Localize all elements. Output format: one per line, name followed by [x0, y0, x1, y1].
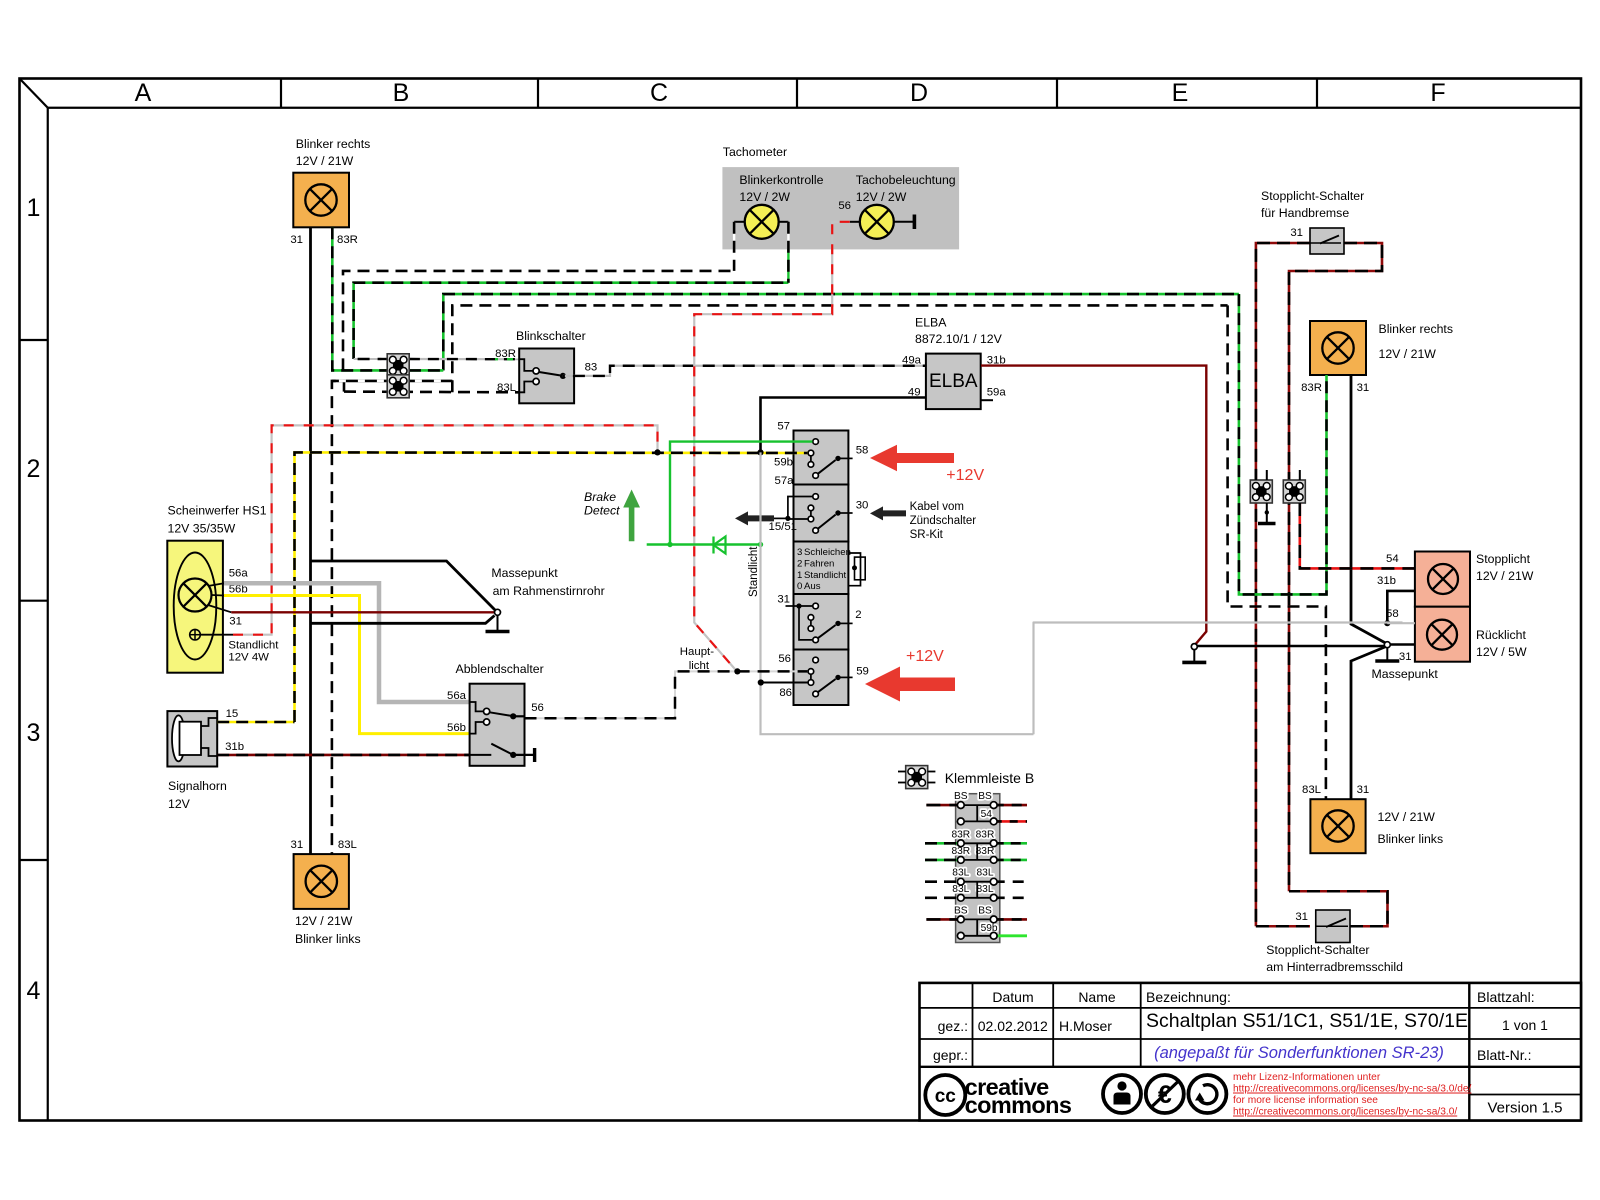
wire 83R green loop from bus L3 to right lamp [1239, 294, 1327, 594]
Klemmleiste internal pair links [976, 805, 978, 821]
svg-text:Tachobeleuchtung: Tachobeleuchtung [856, 173, 956, 187]
Abblendschalter internal contacts [470, 702, 484, 711]
wire 31 Ruecklicht to right Massepunkt [1390, 643, 1415, 646]
wire Handbremse switch left leg (to left connector) [1256, 243, 1310, 926]
svg-text:ELBA: ELBA [929, 371, 978, 392]
wire ELBA 49 to light switch via yellow bus junction [761, 398, 926, 453]
lamp Blinkerkontrolle right stub + green wire down to bus L2 [779, 221, 789, 223]
svg-text:83R: 83R [495, 348, 516, 360]
svg-text:BS: BS [978, 905, 992, 916]
svg-text:83L: 83L [977, 868, 994, 879]
junction dot Hauptlicht [734, 668, 740, 674]
row dividers [20, 339, 48, 341]
switch Blinkschalter body [519, 349, 574, 404]
svg-text:Schaltplan S51/1C1, S51/1E, S7: Schaltplan S51/1C1, S51/1E, S70/1E [1146, 1010, 1468, 1032]
svg-text:Signalhorn: Signalhorn [168, 779, 227, 793]
svg-text:1: 1 [797, 570, 802, 581]
bus L3 green/black y=294.1 [443, 294, 1239, 370]
Klemmleiste B terminals and stub wires [961, 804, 994, 806]
svg-text:Zündschalter: Zündschalter [910, 515, 977, 527]
svg-text:Fahren: Fahren [804, 558, 834, 569]
svg-text:3: 3 [27, 719, 41, 747]
frame bevel diagonal [20, 79, 48, 108]
svg-text:Kabel vom: Kabel vom [910, 501, 964, 513]
switch section4 pins (31/2) [810, 617, 812, 628]
svg-text:12V / 21W: 12V / 21W [1378, 810, 1436, 824]
svg-text:(angepaßt für Sonderfunktionen: (angepaßt für Sonderfunktionen SR-23) [1154, 1044, 1444, 1062]
svg-text:12V / 21W: 12V / 21W [295, 914, 353, 928]
svg-text:31: 31 [1357, 784, 1370, 796]
svg-text:31b: 31b [1377, 575, 1396, 587]
svg-text:3: 3 [797, 547, 802, 558]
connector (4-pin) right of pair [1283, 480, 1305, 503]
svg-text:31b: 31b [225, 741, 244, 753]
svg-text:cc: cc [935, 1086, 957, 1107]
cc icon person (by) [1103, 1075, 1141, 1113]
lamp Blinker links (bottom right) body [1310, 799, 1365, 853]
wire Hinterrad switch left leg [1256, 925, 1310, 928]
svg-text:83R: 83R [337, 234, 358, 246]
svg-text:Scheinwerfer HS1: Scheinwerfer HS1 [168, 504, 267, 518]
svg-text:83L: 83L [952, 868, 969, 879]
lamp Blinkerkontrolle [745, 205, 779, 239]
svg-text:Massepunkt: Massepunkt [1372, 667, 1439, 681]
svg-text:Stopplicht: Stopplicht [1476, 552, 1531, 566]
bus L1 black dashed y=270.9 [343, 271, 734, 371]
left ground node near E (dark red from ELBA 31b) [1191, 644, 1197, 650]
lamp Blinker links (bottom left) body [294, 854, 349, 909]
green junction dot [667, 542, 672, 547]
svg-text:15/51: 15/51 [768, 521, 797, 533]
svg-text:Massepunkt: Massepunkt [491, 566, 558, 580]
wire row1 gray from connector1 to Blinkschalter 83R [409, 358, 519, 360]
wire 83R green from top-left lamp down then right to connector row2 [332, 227, 387, 370]
wire connector2 row4 to Blinkschalter 83L [344, 390, 519, 393]
bus L2 green/black y=282.7 [354, 283, 789, 359]
wire 56b yellow to Abblendschalter [224, 596, 470, 734]
svg-text:Blinker links: Blinker links [1378, 832, 1444, 846]
ELBA box [926, 354, 981, 410]
Signalhorn pin notches [201, 718, 217, 726]
lamp Blinker rechts (right) body [1310, 321, 1366, 375]
section4 bracket [799, 606, 813, 640]
svg-text:für Handbremse: für Handbremse [1261, 206, 1349, 220]
creative commons cc logo [925, 1075, 965, 1115]
wire green diode branch [647, 543, 761, 545]
svg-text:F: F [1430, 79, 1445, 107]
connector (4-pin) left of pair, with ground [1250, 480, 1272, 503]
Blinkschalter internal contacts [519, 359, 533, 371]
svg-text:BS: BS [954, 791, 968, 802]
svg-text:Detect: Detect [584, 504, 620, 518]
wire green 57 from switch to diode junction [670, 442, 812, 545]
svg-text:Blinker rechts: Blinker rechts [296, 137, 371, 151]
svg-text:83: 83 [585, 361, 598, 373]
svg-text:Version 1.5: Version 1.5 [1487, 1100, 1562, 1117]
diode symbol (green) [712, 537, 714, 554]
svg-text:Haupt-: Haupt- [680, 646, 714, 658]
right Massepunkt node and ground [1384, 642, 1390, 648]
Tachometer housing [722, 167, 959, 249]
svg-text:Stopplicht-Schalter: Stopplicht-Schalter [1266, 943, 1369, 957]
wire 58 gray from switch block to Ruecklicht [1034, 623, 1403, 735]
svg-text:12V / 2W: 12V / 2W [856, 190, 907, 204]
svg-text:+12V: +12V [906, 648, 944, 665]
svg-text:83L: 83L [497, 382, 516, 394]
wire ELBA 31b dark red to right Massepunkt [981, 366, 1206, 646]
lamp Stopplicht symbol [1428, 564, 1458, 594]
wire 31 dark red Scheinwerfer to Massepunkt [231, 611, 494, 613]
svg-text:Standlicht: Standlicht [228, 640, 279, 652]
ELBA 59a stub [981, 399, 993, 401]
frame header inner line [48, 107, 1581, 109]
Klemmleiste B connector icon [906, 766, 928, 789]
svg-text:SR-Kit: SR-Kit [910, 529, 944, 541]
wire 31 from top-left lamp down to Massepunkt branches and bottom lamp [309, 227, 312, 854]
svg-text:12V / 5W: 12V / 5W [1476, 645, 1527, 659]
svg-text:12V / 21W: 12V / 21W [1476, 569, 1534, 583]
svg-text:31: 31 [1295, 911, 1308, 923]
Stopplicht-Schalter Hinterrad body [1316, 910, 1350, 943]
Scheinwerfer housing [167, 541, 223, 673]
svg-text:59: 59 [856, 666, 869, 678]
svg-text:Klemmleiste B: Klemmleiste B [945, 770, 1034, 786]
light switch block housing sections [794, 431, 849, 485]
svg-text:Abblendschalter: Abblendschalter [456, 662, 544, 676]
svg-text:commons: commons [965, 1092, 1072, 1118]
svg-text:Tachometer: Tachometer [723, 145, 787, 159]
svg-text:Datum: Datum [992, 989, 1033, 1005]
svg-text:30: 30 [856, 499, 869, 511]
wire row2 green from connector1 right to bus L3 vertical [409, 369, 443, 372]
switch section5 pins (56/86/59) [810, 671, 812, 682]
svg-text:59a: 59a [987, 386, 1007, 398]
title block outer box [920, 983, 1582, 1121]
wire 83L from connector rows down to bottom-left lamp [332, 381, 344, 854]
svg-text:Standlicht: Standlicht [804, 570, 846, 581]
switch section2 pins (57a/15-51/30) [810, 508, 812, 519]
svg-text:12V 35/35W: 12V 35/35W [168, 522, 236, 536]
black arrow Kabel vom Zuendschalter [870, 506, 906, 520]
frame left band inner line [47, 108, 49, 1121]
svg-text:12V 4W: 12V 4W [228, 652, 269, 664]
svg-text:83R: 83R [1301, 382, 1322, 394]
switch section3 selector mechanism [848, 553, 860, 586]
junction dots on yellow bus [654, 449, 660, 455]
svg-text:http://creativecommons.org/lic: http://creativecommons.org/licenses/by-n… [1233, 1107, 1457, 1118]
svg-text:31: 31 [229, 616, 242, 628]
svg-text:86: 86 [779, 687, 792, 699]
svg-text:D: D [910, 79, 928, 107]
svg-text:4: 4 [27, 977, 41, 1005]
wire 31 from right lamp down to right Massepunkt [1351, 375, 1387, 644]
svg-text:gez.:: gez.: [938, 1018, 968, 1034]
svg-text:56: 56 [778, 653, 791, 665]
svg-text:Blattzahl:: Blattzahl: [1477, 989, 1535, 1005]
svg-text:+12V: +12V [946, 467, 984, 484]
Massepunkt node and ground [495, 609, 501, 615]
svg-text:83R: 83R [976, 846, 995, 857]
svg-text:mehr Lizenz-Informationen unte: mehr Lizenz-Informationen unter [1233, 1072, 1381, 1083]
svg-text:31: 31 [1399, 651, 1412, 663]
wire between left ground node and right Massepunkt [1197, 645, 1385, 648]
svg-text:C: C [650, 79, 668, 107]
svg-text:Aus: Aus [804, 581, 821, 592]
svg-text:54: 54 [1386, 553, 1399, 565]
svg-text:BS: BS [978, 791, 992, 802]
Massepunkt branch wires from 31 vertical [311, 561, 496, 610]
Brake Detect green arrow [623, 490, 640, 542]
wire Handbremse switch right leg [1289, 243, 1382, 891]
svg-text:1: 1 [27, 194, 41, 222]
svg-text:Blatt-Nr.:: Blatt-Nr.: [1477, 1047, 1531, 1063]
bus L4 black dashed y=305.4 [452, 305, 1227, 392]
svg-text:83L: 83L [1302, 784, 1321, 796]
wire 54 red/black from right connector to Stopplicht lamp [1300, 503, 1415, 568]
wire 83 output to ELBA 49a [563, 366, 926, 376]
wire row1 connector to bus L2 corner [354, 358, 388, 360]
junction dot on gray wire to switch 86 row [758, 679, 764, 685]
lamp Ruecklicht symbol [1427, 620, 1457, 650]
lamp Tachobeleuchtung right stub with end terminator [894, 221, 915, 223]
svg-text:BS: BS [954, 905, 968, 916]
svg-text:2: 2 [797, 558, 802, 569]
Scheinwerfer Standlicht pilot lamp [190, 629, 201, 640]
svg-text:83L: 83L [977, 884, 994, 895]
wire 31b maroon/black from Signalhorn to Abblendschalter [217, 754, 469, 757]
svg-text:31: 31 [777, 593, 790, 605]
svg-text:12V / 21W: 12V / 21W [296, 154, 354, 168]
wire 56a thick gray to Abblendschalter [224, 583, 470, 702]
svg-text:Bezeichnung:: Bezeichnung: [1146, 989, 1231, 1005]
svg-text:56: 56 [838, 200, 851, 212]
wire red Standlicht feed from Scheinwerfer riser to yellow bus [233, 425, 658, 634]
svg-text:licht: licht [689, 660, 710, 672]
Stopplicht-Schalter Handbremse body [1310, 228, 1344, 254]
svg-text:49a: 49a [902, 355, 922, 367]
svg-text:Blinkschalter: Blinkschalter [516, 329, 586, 343]
Scheinwerfer main lamp [179, 579, 212, 612]
svg-text:Stopplicht-Schalter: Stopplicht-Schalter [1261, 189, 1364, 203]
svg-text:Name: Name [1078, 989, 1116, 1005]
svg-text:56b: 56b [447, 722, 466, 734]
svg-text:56: 56 [531, 702, 544, 714]
cc icon non-commercial euro (nc) [1146, 1075, 1184, 1113]
svg-text:15: 15 [226, 708, 239, 720]
Stopplicht/Ruecklicht housing [1415, 552, 1470, 607]
wire 31 continues from right Massepunkt down to bottom-right lamp [1351, 646, 1387, 799]
svg-text:59b: 59b [774, 457, 793, 469]
svg-text:12V: 12V [168, 797, 191, 811]
svg-text:am Rahmenstirnrohr: am Rahmenstirnrohr [493, 584, 605, 598]
svg-text:83R: 83R [951, 846, 970, 857]
svg-text:for more license information s: for more license information see [1233, 1095, 1378, 1106]
black arrow (cable to ignition) at 15/51 [735, 511, 774, 525]
svg-text:83L: 83L [338, 839, 357, 851]
svg-text:H.Moser: H.Moser [1059, 1018, 1112, 1034]
svg-text:54: 54 [981, 809, 993, 820]
svg-text:56a: 56a [447, 690, 467, 702]
svg-text:gepr.:: gepr.: [933, 1047, 968, 1063]
svg-text:E: E [1172, 79, 1189, 107]
svg-text:31: 31 [290, 234, 303, 246]
red arrow +12V at 58 [870, 445, 954, 472]
svg-text:31: 31 [1290, 227, 1303, 239]
wire 83L dashed from bus L4 to bottom-right lamp [1228, 305, 1326, 799]
cc icon share-alike (sa) [1188, 1075, 1226, 1113]
red arrow +12V at 59 [865, 667, 955, 702]
svg-text:Blinker rechts: Blinker rechts [1379, 322, 1454, 336]
svg-text:Brake: Brake [584, 490, 616, 504]
svg-text:56a: 56a [229, 568, 249, 580]
gray Standlicht wire U-path from bus junction to 58 corner [761, 452, 1034, 734]
svg-text:am Hinterradbremsschild: am Hinterradbremsschild [1266, 960, 1403, 974]
svg-text:57: 57 [777, 420, 790, 432]
svg-text:ELBA: ELBA [915, 316, 947, 330]
svg-text:2: 2 [855, 609, 861, 621]
svg-text:83R: 83R [976, 829, 995, 840]
lamp Blinkerkontrolle left stub + wire down to bus L1 [734, 221, 745, 223]
switch section1 pins (57/59b/58) [810, 453, 812, 464]
svg-text:Rücklicht: Rücklicht [1476, 628, 1526, 642]
svg-text:Blinker links: Blinker links [295, 932, 361, 946]
yellow/black bus 15 (y=452.4) [295, 452, 808, 722]
lamp Blinker rechts (top left) body [293, 173, 349, 228]
svg-text:31: 31 [291, 839, 304, 851]
svg-text:02.02.2012: 02.02.2012 [978, 1018, 1048, 1034]
svg-text:0: 0 [797, 581, 802, 592]
svg-text:58: 58 [856, 445, 869, 457]
junction dot 58 [1384, 620, 1390, 626]
Abblendschalter 56 output stub [513, 715, 524, 717]
wire 31b from Stopplicht to 58 junction [1387, 591, 1415, 623]
svg-text:2: 2 [27, 455, 41, 483]
svg-text:1 von 1: 1 von 1 [1502, 1017, 1548, 1033]
svg-text:Standlicht: Standlicht [748, 546, 760, 597]
svg-text:83R: 83R [951, 829, 970, 840]
svg-text:Blinkerkontrolle: Blinkerkontrolle [739, 173, 823, 187]
svg-text:A: A [135, 79, 152, 107]
svg-text:12V / 2W: 12V / 2W [739, 190, 790, 204]
column dividers [280, 79, 282, 108]
Abblendschalter body [470, 684, 525, 766]
Abblendschalter lower switch (31b) lever and terminator [470, 754, 492, 756]
section2 bracket wire to black arrow [788, 497, 813, 520]
wire Hauptlicht dashed from Abblendschalter 56 to switch [525, 671, 808, 718]
lamp Tachobeleuchtung [860, 205, 894, 239]
title block grid lines [920, 1007, 1582, 1009]
wire Hinterrad switch right leg [1289, 891, 1388, 926]
svg-text:57a: 57a [774, 475, 794, 487]
connector pair (4-pin) near B2 [387, 354, 409, 377]
Klemmleiste B strip body [956, 794, 1000, 943]
svg-text:12V / 21W: 12V / 21W [1379, 347, 1437, 361]
wire connector2 row3 [332, 380, 452, 383]
svg-text:B: B [393, 79, 410, 107]
svg-text:Schleichen: Schleichen [804, 547, 851, 558]
Signalhorn body [167, 711, 217, 766]
wire 15 yellow/black from Signalhorn to riser [217, 721, 294, 724]
svg-text:31: 31 [1357, 382, 1370, 394]
svg-text:8872.10/1 / 12V: 8872.10/1 / 12V [915, 332, 1003, 346]
svg-text:http://creativecommons.org/lic: http://creativecommons.org/licenses/by-n… [1233, 1084, 1472, 1095]
wire 56 red/gray from Tachobeleuchtung down and left to Hauptlicht junction [850, 221, 860, 223]
Klemmleiste terminal circles [957, 802, 964, 809]
Scheinwerfer pin stubs [208, 583, 224, 586]
